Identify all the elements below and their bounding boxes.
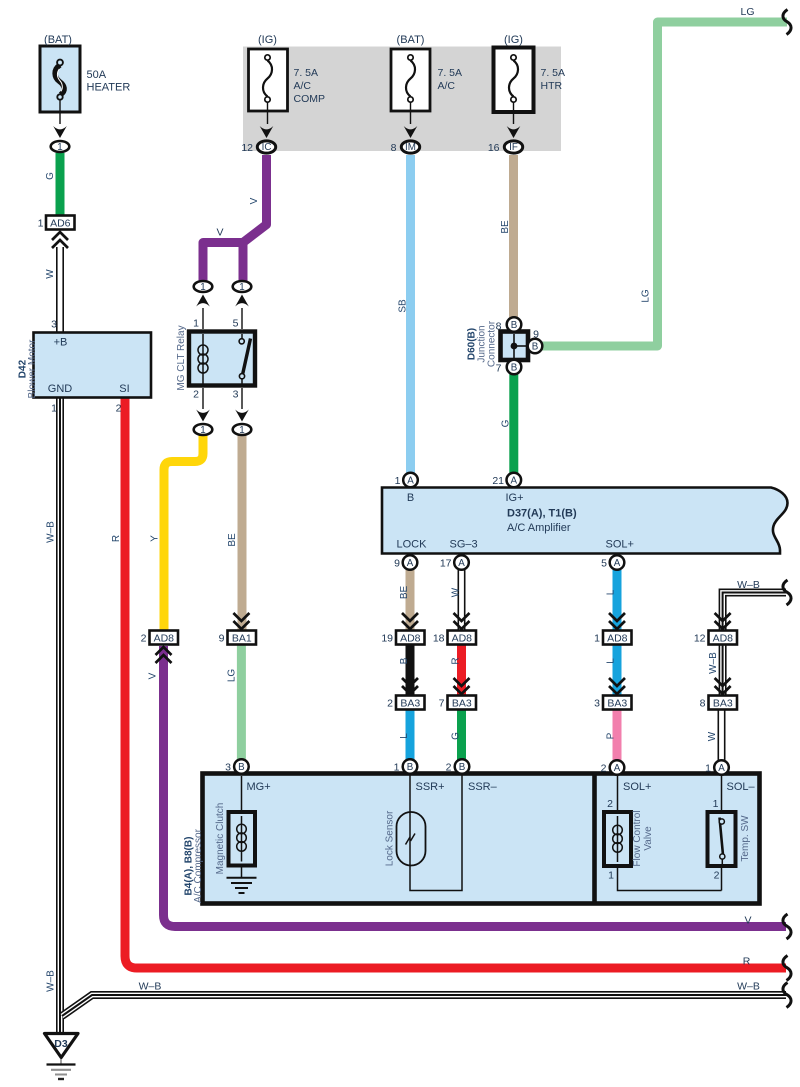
svg-text:B: B — [459, 762, 466, 773]
svg-text:1: 1 — [608, 870, 614, 882]
compressor pin 2 circle A — [601, 760, 625, 775]
svg-text:A: A — [407, 476, 414, 487]
break symbol R — [783, 956, 791, 981]
svg-text:1: 1 — [193, 318, 199, 330]
wire BE amplifier LOCK to AD8 — [406, 570, 415, 631]
svg-text:21: 21 — [492, 475, 504, 487]
svg-text:7. 5A: 7. 5A — [541, 67, 566, 79]
break symbol V — [783, 914, 791, 939]
wire W-B AD8 to BA3 — [719, 644, 727, 696]
compressor pin 1 circle A — [705, 760, 729, 775]
fuse 7.5A A/C COMP — [249, 34, 326, 138]
svg-text:50A: 50A — [87, 69, 107, 81]
wire W amplifier SG-3 to AD8 — [458, 570, 466, 631]
svg-text:1: 1 — [239, 282, 244, 293]
svg-text:L: L — [606, 589, 617, 595]
wire L AD8 to BA3 — [613, 644, 622, 696]
svg-text:G: G — [45, 172, 56, 180]
svg-text:2: 2 — [193, 389, 199, 401]
relay bottom oval 1 left — [194, 424, 213, 436]
wire P BA3 to SOL+ — [613, 709, 622, 761]
amplifier pin 5 circle A — [601, 555, 624, 570]
svg-text:A: A — [407, 558, 414, 569]
svg-text:3: 3 — [594, 698, 600, 710]
break symbol W-B bottom — [783, 983, 791, 1008]
blower motor D42 — [18, 319, 152, 415]
wire W BA3 to SOL- — [718, 709, 726, 761]
svg-text:2: 2 — [601, 763, 607, 775]
svg-text:Temp. SW: Temp. SW — [740, 815, 751, 862]
connector oval 1 heater — [51, 141, 70, 153]
temp switch — [708, 776, 752, 891]
svg-text:1: 1 — [705, 763, 711, 775]
svg-text:P: P — [606, 732, 617, 739]
svg-text:1: 1 — [594, 633, 600, 645]
svg-text:W–B: W–B — [46, 970, 57, 992]
svg-text:1: 1 — [713, 798, 719, 810]
connector 12 AD8 — [694, 631, 737, 645]
svg-text:AD8: AD8 — [607, 633, 628, 645]
svg-text:B: B — [532, 342, 539, 353]
svg-text:W: W — [707, 731, 718, 741]
wire G D60 to amplifier IG+ — [509, 373, 518, 473]
relay top oval 1 right — [233, 281, 252, 293]
svg-text:W–B: W–B — [46, 521, 57, 543]
svg-text:A/C: A/C — [294, 80, 312, 92]
ground inside compressor — [227, 866, 257, 894]
fuse 7.5A HTR — [494, 34, 566, 138]
svg-text:W–B: W–B — [737, 579, 760, 591]
junction block gray area — [243, 47, 561, 152]
connector 7 BA3 — [439, 696, 476, 710]
wire W-B top right to AD8 — [723, 593, 786, 632]
svg-text:2: 2 — [607, 798, 613, 810]
connector 19 AD8 — [381, 631, 424, 645]
svg-text:(IG): (IG) — [504, 34, 523, 46]
wire LG BA1 to compressor MG+ — [237, 645, 246, 761]
connector oval IF — [488, 141, 523, 154]
svg-text:AD8: AD8 — [452, 633, 473, 645]
connector 2 AD8 — [141, 631, 178, 645]
svg-text:W–B: W–B — [139, 981, 162, 993]
svg-text:LOCK: LOCK — [397, 539, 428, 551]
svg-text:(BAT): (BAT) — [397, 34, 425, 46]
svg-text:AD8: AD8 — [154, 633, 175, 645]
svg-text:AD8: AD8 — [713, 633, 734, 645]
A/C amplifier D37(A),T1(B) — [382, 488, 788, 554]
svg-text:A/C Compressor: A/C Compressor — [193, 828, 204, 903]
wire V from fuse IC to relay — [203, 155, 267, 281]
svg-text:9: 9 — [394, 558, 400, 570]
svg-text:LG: LG — [740, 6, 754, 18]
connector 3 BA3 — [594, 696, 631, 710]
svg-text:SI: SI — [119, 383, 129, 395]
wire G heater — [56, 153, 65, 218]
svg-text:B: B — [511, 320, 518, 331]
svg-text:8: 8 — [391, 142, 397, 154]
svg-text:D37(A), T1(B): D37(A), T1(B) — [507, 508, 577, 520]
chevron into AD8 yellow col (pointing up from below) — [156, 647, 172, 663]
svg-text:V: V — [148, 672, 159, 679]
junction connector D60(B) — [467, 320, 540, 374]
svg-text:1: 1 — [51, 403, 57, 415]
D60 circle B top — [507, 317, 522, 332]
svg-text:2: 2 — [387, 698, 393, 710]
relay bottom oval 1 right — [233, 424, 252, 436]
connector oval IC — [241, 141, 275, 154]
svg-text:L: L — [399, 733, 410, 739]
svg-text:MG CLT Relay: MG CLT Relay — [176, 325, 187, 390]
compressor pin 2 circle B — [446, 759, 470, 774]
break symbol W-B top — [783, 580, 791, 605]
svg-text:8: 8 — [700, 698, 706, 710]
svg-text:V: V — [249, 197, 260, 204]
svg-text:R: R — [743, 956, 751, 968]
MG CLT relay — [176, 318, 255, 401]
svg-text:AD8: AD8 — [400, 633, 421, 645]
amplifier pin 21 circle A — [492, 473, 521, 488]
svg-text:1: 1 — [200, 282, 205, 293]
svg-text:Flow Control: Flow Control — [632, 810, 643, 866]
relay pin5 line and arrow — [241, 308, 243, 329]
svg-text:SSR–: SSR– — [468, 781, 498, 793]
svg-text:3: 3 — [225, 762, 231, 774]
svg-text:AD6: AD6 — [50, 218, 71, 230]
svg-text:9: 9 — [219, 633, 225, 645]
svg-text:(BAT): (BAT) — [44, 34, 72, 46]
svg-text:1: 1 — [394, 762, 400, 774]
svg-text:12: 12 — [694, 633, 706, 645]
svg-text:IG+: IG+ — [506, 492, 524, 504]
wire LG D60 to top right — [541, 22, 787, 346]
svg-text:2: 2 — [141, 633, 147, 645]
svg-text:SOL–: SOL– — [727, 781, 756, 793]
svg-text:16: 16 — [488, 142, 500, 154]
relay pin1 line and arrow — [202, 308, 204, 329]
wire BE fuse IF to D60 — [509, 155, 518, 319]
svg-text:1: 1 — [38, 218, 44, 230]
svg-text:D3: D3 — [54, 1038, 68, 1050]
svg-text:COMP: COMP — [294, 93, 326, 105]
svg-text:IF: IF — [509, 142, 518, 153]
compressor pin 3 circle B — [225, 759, 249, 774]
svg-text:1: 1 — [239, 425, 244, 436]
svg-text:A: A — [614, 558, 621, 569]
connector 2 BA3 — [387, 696, 424, 710]
relay pin2 line and arrow — [202, 388, 204, 409]
svg-text:BA3: BA3 — [400, 698, 420, 710]
svg-text:BA3: BA3 — [607, 698, 627, 710]
svg-text:SOL+: SOL+ — [623, 781, 651, 793]
magnetic clutch — [215, 776, 255, 874]
svg-text:12: 12 — [241, 142, 253, 154]
D60 circle B bottom — [507, 360, 522, 375]
svg-text:R: R — [451, 657, 462, 664]
amplifier pin 1 circle A — [395, 473, 418, 488]
wire SB fuse IM to amplifier B — [406, 155, 415, 473]
wire W-B bottom horizontal — [62, 995, 786, 1016]
svg-text:1: 1 — [57, 142, 62, 153]
connector 18 AD8 — [433, 631, 476, 645]
wire G BA3 to SSR- — [457, 709, 466, 760]
svg-text:R: R — [111, 535, 122, 542]
svg-text:3: 3 — [51, 319, 57, 331]
D60 circle B right — [528, 339, 543, 354]
svg-text:LG: LG — [227, 669, 238, 683]
svg-text:7. 5A: 7. 5A — [438, 67, 463, 79]
svg-text:A/C: A/C — [438, 80, 456, 92]
svg-text:SB: SB — [398, 299, 409, 313]
ground D3 — [45, 1034, 79, 1080]
svg-text:V: V — [744, 915, 751, 927]
wire W-B left vertical — [56, 396, 64, 1034]
connector 9 BA1 — [219, 631, 256, 645]
svg-text:18: 18 — [433, 633, 445, 645]
svg-text:W: W — [451, 587, 462, 597]
svg-text:W: W — [45, 269, 56, 279]
svg-text:BE: BE — [500, 220, 511, 234]
svg-text:A/C Amplifier: A/C Amplifier — [507, 522, 571, 534]
svg-text:5: 5 — [233, 318, 239, 330]
svg-text:HEATER: HEATER — [87, 82, 131, 94]
fuse 7.5A A/C — [391, 34, 462, 138]
svg-text:W–B: W–B — [708, 652, 719, 674]
svg-text:17: 17 — [440, 558, 452, 570]
svg-text:MG+: MG+ — [247, 781, 271, 793]
svg-text:7. 5A: 7. 5A — [294, 67, 319, 79]
svg-text:B: B — [238, 762, 245, 773]
compressor pin 1 circle B — [394, 759, 418, 774]
svg-text:SOL+: SOL+ — [606, 539, 634, 551]
chevrons into BA3 row — [402, 678, 418, 694]
svg-text:BA3: BA3 — [452, 698, 472, 710]
svg-text:3: 3 — [233, 389, 239, 401]
svg-text:1: 1 — [200, 425, 205, 436]
svg-text:2: 2 — [116, 403, 122, 415]
svg-text:(IG): (IG) — [258, 34, 277, 46]
svg-text:G: G — [501, 419, 512, 427]
svg-text:IC: IC — [262, 142, 272, 153]
svg-text:A: A — [511, 476, 518, 487]
wire B AD8 to BA3 — [406, 644, 415, 696]
svg-text:Y: Y — [150, 535, 161, 542]
svg-text:BE: BE — [227, 533, 238, 547]
chevron into AD6 — [52, 232, 68, 248]
fuse 50A HEATER — [40, 34, 130, 138]
svg-text:V: V — [216, 227, 223, 239]
svg-text:2: 2 — [714, 870, 720, 882]
svg-text:19: 19 — [381, 633, 393, 645]
svg-text:Magnetic Clutch: Magnetic Clutch — [215, 803, 226, 875]
relay pin3 line and arrow — [241, 388, 243, 409]
svg-text:B: B — [407, 492, 414, 504]
svg-text:7: 7 — [439, 698, 445, 710]
svg-text:W–B: W–B — [737, 981, 760, 993]
svg-text:Lock Sensor: Lock Sensor — [385, 810, 396, 866]
svg-text:A: A — [718, 763, 725, 774]
svg-text:BA1: BA1 — [232, 633, 252, 645]
connector AD6 — [38, 216, 75, 230]
wire W blower (double line) — [56, 247, 64, 333]
svg-text:SSR+: SSR+ — [416, 781, 445, 793]
wire L amplifier SOL+ to AD8 — [613, 570, 622, 631]
wire V below AD8 to bottom right — [164, 646, 787, 927]
wire R AD8 to BA3 — [457, 644, 466, 696]
svg-text:Valve: Valve — [643, 826, 654, 851]
svg-text:IM: IM — [405, 142, 416, 153]
connector 8 BA3 — [700, 696, 737, 710]
svg-text:SG–3: SG–3 — [450, 539, 478, 551]
svg-text:LG: LG — [641, 289, 652, 303]
lock sensor — [385, 774, 463, 891]
wire L BA3 to SSR+ — [406, 709, 415, 760]
wire Y relay pin2 to AD8 — [164, 435, 203, 631]
connector oval IM — [391, 141, 420, 154]
svg-text:HTR: HTR — [541, 80, 563, 92]
svg-text:8: 8 — [496, 321, 502, 333]
flow control valve — [604, 776, 722, 891]
wire BE relay pin3 to BA1 — [238, 435, 247, 631]
svg-text:7: 7 — [496, 363, 502, 375]
svg-text:GND: GND — [48, 383, 73, 395]
wire R blower SI — [125, 396, 786, 968]
amplifier pin 17 circle A — [440, 555, 469, 570]
svg-text:5: 5 — [601, 558, 607, 570]
svg-text:1: 1 — [395, 475, 401, 487]
relay top oval 1 left — [194, 281, 213, 293]
svg-text:B: B — [407, 762, 414, 773]
svg-text:A: A — [458, 558, 465, 569]
svg-text:L: L — [606, 658, 617, 664]
svg-text:BE: BE — [399, 586, 410, 600]
break symbol LG — [783, 10, 791, 35]
svg-text:+B: +B — [54, 337, 68, 349]
svg-text:B: B — [399, 657, 410, 664]
amplifier pin 9 circle A — [394, 555, 417, 570]
connector 1 AD8 — [594, 631, 631, 645]
svg-text:Blower Motor: Blower Motor — [27, 339, 38, 399]
chevrons into AD8 row — [233, 613, 249, 629]
svg-text:B: B — [511, 363, 518, 374]
svg-text:BA3: BA3 — [713, 698, 733, 710]
svg-text:A: A — [614, 763, 621, 774]
svg-text:G: G — [451, 732, 462, 740]
svg-text:2: 2 — [446, 762, 452, 774]
A/C compressor outer box — [184, 774, 760, 904]
